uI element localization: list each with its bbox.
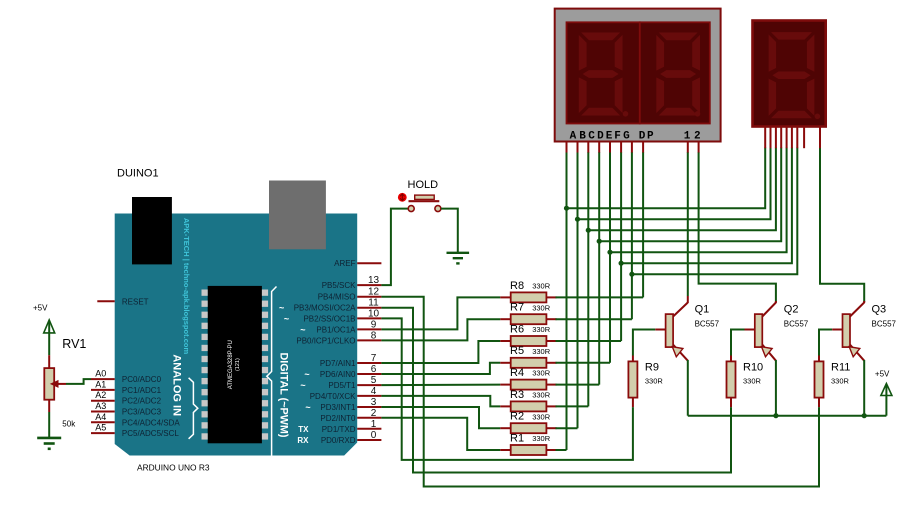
svg-text:A4: A4 (95, 412, 106, 422)
svg-text:R5: R5 (510, 345, 524, 357)
svg-text:R8: R8 (510, 280, 524, 292)
svg-text:A: A (570, 130, 577, 142)
svg-text:DIGITAL (~PWM): DIGITAL (~PWM) (278, 352, 290, 437)
svg-text:A5: A5 (95, 423, 106, 433)
svg-text:330R: 330R (645, 377, 664, 386)
svg-text:PC3/ADC3: PC3/ADC3 (122, 408, 162, 417)
svg-text:50k: 50k (62, 420, 76, 429)
svg-text:R1: R1 (510, 432, 524, 444)
svg-text:B: B (579, 130, 586, 142)
svg-text:~: ~ (300, 325, 305, 335)
svg-text:330R: 330R (532, 434, 551, 443)
svg-text:330R: 330R (532, 282, 551, 291)
svg-text:~: ~ (300, 381, 305, 391)
svg-text:+5V: +5V (875, 370, 890, 379)
svg-text:HOLD: HOLD (408, 179, 439, 191)
svg-text:R9: R9 (645, 362, 659, 374)
svg-text:RESET: RESET (122, 297, 149, 306)
svg-text:R2: R2 (510, 411, 524, 423)
svg-text:PB4/MISO: PB4/MISO (318, 293, 356, 302)
svg-text:PB2/SS/OC1B: PB2/SS/OC1B (303, 314, 355, 323)
svg-text:R6: R6 (510, 323, 524, 335)
svg-text:RX: RX (297, 436, 309, 445)
svg-text:APK-TECH | techno-apk.blogspot: APK-TECH | techno-apk.blogspot.com (182, 218, 191, 355)
svg-text:PD0/RXD: PD0/RXD (321, 436, 356, 445)
svg-text:(121): (121) (235, 358, 241, 371)
svg-text:D: D (597, 130, 604, 142)
svg-text:PB3/MOSI/OC2A: PB3/MOSI/OC2A (294, 304, 356, 313)
svg-text:A3: A3 (95, 401, 106, 411)
svg-text:PB5/SCK: PB5/SCK (322, 281, 356, 290)
svg-text:~: ~ (279, 303, 284, 313)
svg-text:330R: 330R (831, 377, 850, 386)
svg-text:~: ~ (305, 403, 310, 413)
svg-text:PD3/INT1: PD3/INT1 (320, 403, 356, 412)
svg-text:330R: 330R (532, 347, 551, 356)
svg-text:PB1/OC1A: PB1/OC1A (316, 325, 356, 334)
svg-text:R10: R10 (743, 362, 763, 374)
svg-text:AREF: AREF (334, 259, 355, 268)
svg-text:D: D (639, 130, 646, 142)
svg-text:Q2: Q2 (784, 304, 799, 316)
svg-text:BC557: BC557 (784, 320, 809, 329)
svg-text:PB0/ICP1/CLKO: PB0/ICP1/CLKO (296, 336, 355, 345)
svg-text:PD1/TXD: PD1/TXD (322, 425, 356, 434)
svg-text:R3: R3 (510, 389, 524, 401)
svg-text:Q3: Q3 (872, 304, 887, 316)
svg-text:A1: A1 (95, 379, 106, 389)
svg-text:A0: A0 (95, 369, 106, 379)
svg-text:ANALOG IN: ANALOG IN (171, 354, 183, 416)
svg-text:A2: A2 (95, 390, 106, 400)
svg-text:330R: 330R (532, 303, 551, 312)
svg-text:RV1: RV1 (62, 337, 86, 351)
svg-text:F: F (614, 130, 621, 142)
svg-text:BC557: BC557 (872, 320, 897, 329)
svg-text:~: ~ (284, 314, 289, 324)
svg-text:ARDUINO UNO R3: ARDUINO UNO R3 (137, 463, 210, 473)
svg-text:TX: TX (298, 425, 309, 434)
svg-text:~: ~ (304, 370, 309, 380)
svg-text:Q1: Q1 (695, 304, 710, 316)
svg-text:PD6/AIN0: PD6/AIN0 (320, 370, 356, 379)
svg-text:330R: 330R (532, 412, 551, 421)
svg-text:PD4/T0/XCK: PD4/T0/XCK (310, 392, 356, 401)
svg-text:330R: 330R (532, 325, 551, 334)
svg-text:P: P (647, 130, 654, 142)
svg-text:G: G (623, 130, 630, 142)
svg-text:2: 2 (694, 130, 701, 142)
svg-text:330R: 330R (743, 377, 762, 386)
svg-text:PC5/ADC5/SCL: PC5/ADC5/SCL (122, 429, 179, 438)
svg-text:+5V: +5V (33, 304, 48, 313)
svg-text:1: 1 (684, 130, 691, 142)
svg-text:PC0/ADC0: PC0/ADC0 (122, 375, 162, 384)
svg-text:PC1/ADC1: PC1/ADC1 (122, 386, 162, 395)
svg-text:R4: R4 (510, 367, 524, 379)
svg-text:PD7/AIN1: PD7/AIN1 (320, 359, 356, 368)
svg-text:DUINO1: DUINO1 (117, 168, 159, 180)
svg-text:R11: R11 (831, 362, 850, 374)
svg-text:ATMEGA328P-PU: ATMEGA328P-PU (228, 340, 234, 389)
svg-text:330R: 330R (532, 369, 551, 378)
svg-text:PC4/ADC4/SDA: PC4/ADC4/SDA (122, 418, 180, 427)
svg-text:E: E (606, 130, 613, 142)
svg-text:330R: 330R (532, 391, 551, 400)
svg-text:PD2/INT0: PD2/INT0 (320, 414, 356, 423)
svg-text:PC2/ADC2: PC2/ADC2 (122, 397, 162, 406)
svg-text:BC557: BC557 (695, 320, 720, 329)
svg-text:R7: R7 (510, 302, 524, 314)
svg-text:C: C (588, 130, 595, 142)
svg-text:PD5/T1: PD5/T1 (328, 381, 356, 390)
